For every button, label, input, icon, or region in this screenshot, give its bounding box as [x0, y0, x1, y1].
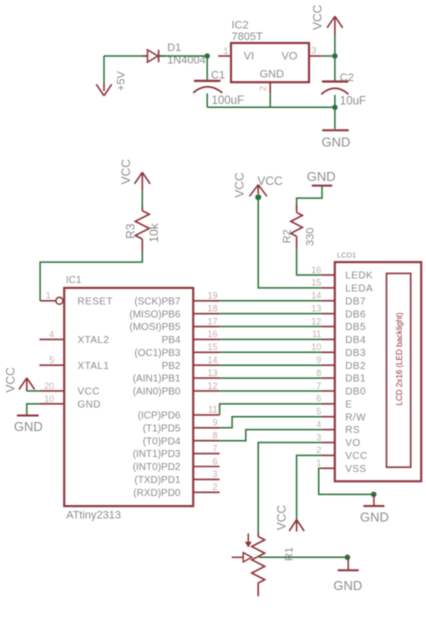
svg-text:12: 12: [207, 381, 217, 391]
svg-text:20: 20: [44, 381, 54, 391]
LCD1 pin 3 VO: [316, 432, 360, 449]
IC1 pin 1 RESET: [40, 290, 113, 307]
svg-text:(T1)PD5: (T1)PD5: [143, 423, 181, 434]
svg-text:8: 8: [316, 368, 321, 378]
svg-text:(AIN0)PB0: (AIN0)PB0: [133, 387, 181, 398]
svg-text:(RXD)PD0: (RXD)PD0: [133, 488, 181, 499]
node E junction (wiper/GND): [345, 555, 351, 561]
svg-text:XTAL2: XTAL2: [78, 335, 110, 346]
svg-text:PB4: PB4: [162, 335, 181, 346]
wire node C to ground: [334, 107, 336, 129]
svg-text:VCC: VCC: [275, 505, 289, 531]
svg-text:11: 11: [312, 329, 321, 339]
LCD1 pin 8 DB1: [316, 368, 366, 385]
svg-text:IC1: IC1: [66, 275, 82, 286]
svg-text:7: 7: [212, 443, 217, 453]
LCD1 pin 15 LEDA: [311, 278, 373, 295]
wire R1 wiper to ground: [259, 556, 348, 558]
svg-text:DB3: DB3: [345, 348, 366, 359]
LCD1 pin 9 DB2: [316, 355, 366, 372]
svg-text:8: 8: [212, 431, 217, 441]
svg-text:(SCK)PB7: (SCK)PB7: [134, 296, 181, 307]
svg-text:VCC: VCC: [345, 451, 367, 462]
svg-text:VI: VI: [244, 51, 254, 63]
svg-text:+5V: +5V: [116, 70, 128, 91]
+5V supply symbol: [96, 56, 127, 96]
svg-text:5: 5: [49, 355, 54, 365]
svg-text:7805T: 7805T: [232, 31, 263, 43]
IC1 pin 5 XTAL1: [39, 355, 109, 372]
svg-text:13: 13: [311, 303, 321, 313]
IC1 pin 3 (TXD)PD1: [134, 469, 219, 486]
svg-text:17: 17: [207, 316, 217, 326]
ground symbol (LCD VSS): [360, 494, 389, 524]
IC1 pin 7 (INT1)PD3: [133, 443, 220, 460]
IC1 pin 18 (MISO)PB6: [129, 303, 219, 320]
IC1 pin 4 XTAL2: [39, 329, 109, 346]
svg-text:IC2: IC2: [232, 20, 249, 32]
svg-text:330: 330: [305, 228, 317, 246]
wire R3 to IC1 RESET: [40, 252, 142, 300]
svg-text:14: 14: [207, 355, 217, 365]
svg-text:11: 11: [208, 405, 217, 415]
svg-text:E: E: [345, 399, 352, 410]
svg-text:GND: GND: [307, 169, 336, 184]
wire PD6 to LCD E: [220, 404, 322, 415]
svg-text:16: 16: [311, 265, 321, 275]
node A junction (D1/C1/IC2 VI): [205, 53, 210, 58]
node B junction (VO/C2/VCC): [332, 53, 337, 58]
svg-text:(ICP)PD6: (ICP)PD6: [138, 411, 181, 422]
svg-text:ATtiny2313: ATtiny2313: [66, 510, 121, 522]
IC1 pin 2 (RXD)PD0: [133, 482, 219, 499]
LCD1 pin 14 DB7: [311, 291, 366, 308]
svg-text:GND: GND: [78, 399, 101, 410]
svg-text:4: 4: [316, 419, 321, 429]
svg-text:1: 1: [46, 290, 51, 300]
svg-text:3: 3: [212, 469, 217, 479]
svg-text:(INT0)PD2: (INT0)PD2: [133, 462, 181, 473]
svg-text:DB1: DB1: [345, 374, 366, 385]
trimmer potentiometer R1: [232, 533, 296, 596]
VCC supply (LCD VCC): [275, 505, 305, 532]
svg-text:VCC: VCC: [232, 172, 246, 198]
IC1 pin 11 (ICP)PD6: [138, 405, 220, 422]
wire LCD VSS to ground: [319, 468, 374, 494]
wire LCD VO to R1: [258, 443, 322, 533]
svg-text:GND: GND: [333, 578, 362, 593]
IC1 pin 12 (AIN0)PB0: [133, 381, 220, 398]
IC1 pin 16 PB4: [162, 329, 220, 346]
svg-text:7: 7: [316, 381, 321, 391]
svg-text:13: 13: [207, 368, 217, 378]
svg-text:GND: GND: [360, 510, 389, 525]
VCC supply (top right): [311, 4, 343, 56]
LCD1 pin 5 R/W: [316, 407, 366, 424]
svg-text:2: 2: [212, 482, 217, 492]
wire D1 to node A: [159, 55, 208, 57]
wire PD5 to LCD R/W: [220, 417, 322, 428]
svg-text:LEDK: LEDK: [345, 271, 373, 282]
svg-text:VO: VO: [282, 51, 298, 63]
VCC supply (IC1 pin 20): [4, 367, 40, 393]
svg-text:(TXD)PD1: (TXD)PD1: [134, 475, 181, 486]
svg-text:5: 5: [316, 407, 321, 417]
svg-text:DB6: DB6: [345, 309, 366, 320]
svg-text:6: 6: [212, 456, 217, 466]
svg-text:15: 15: [207, 342, 217, 352]
svg-text:10uF: 10uF: [340, 96, 366, 108]
svg-text:4: 4: [49, 329, 54, 339]
wire IC2 VO to node B: [322, 55, 335, 57]
svg-text:100uF: 100uF: [212, 95, 245, 107]
svg-text:C1: C1: [211, 69, 225, 81]
svg-text:VO: VO: [345, 438, 360, 449]
wire VCC to LCD LEDA: [258, 197, 322, 288]
wire VCC to R3: [141, 191, 143, 211]
node C junction (C2/ground rail): [332, 105, 337, 110]
svg-text:R3: R3: [123, 223, 137, 239]
wire PB6 to DB6: [220, 313, 322, 315]
wire PB7 to DB7: [220, 300, 322, 302]
ground symbol (top right): [322, 130, 351, 149]
LCD1 pin 11 DB4: [312, 329, 366, 346]
svg-text:(INT1)PD3: (INT1)PD3: [133, 449, 181, 460]
svg-text:GND: GND: [14, 419, 43, 434]
LCD1 pin 2 VCC: [316, 445, 367, 462]
wire PB5 to DB5: [220, 326, 322, 328]
svg-text:14: 14: [311, 291, 321, 301]
wire PD4 to LCD RS: [220, 430, 322, 441]
svg-text:VCC: VCC: [311, 4, 325, 30]
svg-text:10: 10: [311, 342, 321, 352]
svg-text:XTAL1: XTAL1: [78, 361, 110, 372]
resistor R2 330: [281, 205, 316, 249]
svg-text:(T0)PD4: (T0)PD4: [143, 436, 181, 447]
svg-text:1: 1: [223, 46, 228, 56]
svg-text:C2: C2: [340, 72, 354, 84]
IC1 pin 8 (T0)PD4: [143, 431, 220, 448]
svg-text:16: 16: [207, 329, 217, 339]
IC U1 body (IC1 ATtiny2313): [64, 275, 193, 522]
svg-text:19: 19: [207, 291, 217, 301]
wire PB3 to DB3: [220, 351, 322, 353]
svg-text:R/W: R/W: [345, 412, 366, 423]
voltage regulator IC2 7805T: [218, 20, 322, 94]
svg-text:PB2: PB2: [162, 361, 181, 372]
LCD1 pin 1 VSS: [316, 458, 366, 475]
capacitor C1 100uF: [193, 56, 244, 107]
svg-text:(MOSI)PB5: (MOSI)PB5: [129, 322, 181, 333]
svg-text:LCD 2x16 (LED backlight): LCD 2x16 (LED backlight): [394, 312, 404, 405]
svg-text:DB2: DB2: [345, 361, 366, 372]
svg-text:VCC: VCC: [257, 174, 283, 188]
LCD1 pin 16 LEDK: [311, 265, 373, 282]
wire PB4 to DB4: [220, 338, 322, 340]
IC1 pin 19 (SCK)PB7: [134, 291, 219, 308]
svg-text:DB0: DB0: [345, 387, 366, 398]
svg-text:RS: RS: [345, 425, 360, 436]
wire PB2 to DB2: [220, 364, 322, 366]
svg-text:(MISO)PB6: (MISO)PB6: [129, 309, 181, 320]
svg-text:RESET: RESET: [78, 296, 113, 307]
ground symbol (IC1 pin 10): [14, 404, 43, 434]
IC1 pin 20 VCC: [39, 381, 99, 398]
LCD1 pin 4 RS: [316, 419, 360, 436]
svg-text:9: 9: [316, 355, 321, 365]
IC1 pin 13 (AIN1)PB1: [133, 368, 220, 385]
IC1 pin 10 GND: [39, 394, 101, 411]
svg-text:LCD1: LCD1: [337, 251, 356, 260]
wire PB0 to DB0: [220, 390, 322, 392]
node F junction (VSS/GND): [371, 492, 377, 498]
ground rail wire (top): [207, 106, 335, 108]
LCD1 pin 6 E: [316, 394, 352, 411]
wire +5V to D1: [104, 55, 148, 57]
svg-text:GND: GND: [322, 134, 351, 149]
svg-text:10k: 10k: [147, 222, 161, 242]
node D junction (VCC/LEDA): [255, 194, 261, 200]
svg-text:VSS: VSS: [345, 464, 366, 475]
svg-text:6: 6: [316, 394, 321, 404]
svg-text:18: 18: [207, 303, 217, 313]
wire R2 to LCD LEDK: [297, 249, 322, 276]
IC1 pin 9 (T1)PD5: [143, 418, 220, 435]
svg-text:1: 1: [316, 458, 321, 468]
svg-text:R2: R2: [281, 229, 293, 243]
VCC supply (LEDA): [232, 172, 283, 198]
ground symbol (R2): [307, 169, 336, 185]
svg-text:VCC: VCC: [4, 367, 18, 393]
svg-text:9: 9: [212, 418, 217, 428]
svg-text:DB5: DB5: [345, 322, 366, 333]
svg-text:DB7: DB7: [345, 296, 366, 307]
svg-text:(AIN1)PB1: (AIN1)PB1: [133, 374, 181, 385]
resistor R3 10k: [123, 207, 160, 252]
wire IC2 GND pin to ground rail: [269, 94, 271, 107]
svg-text:10: 10: [44, 394, 54, 404]
capacitor C2 10uF: [321, 56, 366, 108]
svg-text:DB4: DB4: [345, 335, 366, 346]
wire PB1 to DB1: [220, 377, 322, 379]
LCD1 pin 12 DB5: [311, 316, 366, 333]
LCD module LCD1 body: [335, 251, 421, 482]
svg-text:12: 12: [311, 316, 321, 326]
svg-text:3: 3: [316, 432, 321, 442]
svg-text:(OC1)PB3: (OC1)PB3: [134, 348, 181, 359]
wire GND to R2: [297, 186, 322, 209]
svg-text:LEDA: LEDA: [345, 283, 373, 294]
svg-text:2: 2: [258, 86, 268, 91]
LCD1 pin 13 DB6: [311, 303, 366, 320]
svg-text:D1: D1: [167, 42, 181, 54]
IC1 pin 14 PB2: [162, 355, 220, 372]
svg-text:VCC: VCC: [119, 159, 133, 185]
svg-text:VCC: VCC: [78, 387, 100, 398]
VCC supply (R3): [119, 159, 150, 191]
LCD1 pin 10 DB3: [311, 342, 366, 359]
IC1 pin 6 (INT0)PD2: [133, 456, 220, 473]
svg-text:2: 2: [316, 445, 321, 455]
IC1 pin 15 (OC1)PB3: [134, 342, 219, 359]
svg-text:R1: R1: [283, 547, 295, 561]
LCD1 pin 7 DB0: [316, 381, 366, 398]
wire LCD VCC to VCC supply: [297, 455, 322, 523]
svg-text:GND: GND: [260, 69, 285, 81]
svg-text:3: 3: [311, 46, 316, 56]
ground symbol (R1 wiper): [333, 557, 362, 593]
diode D1 1N4004: [143, 42, 206, 66]
svg-text:15: 15: [311, 278, 321, 288]
IC1 pin 17 (MOSI)PB5: [129, 316, 219, 333]
